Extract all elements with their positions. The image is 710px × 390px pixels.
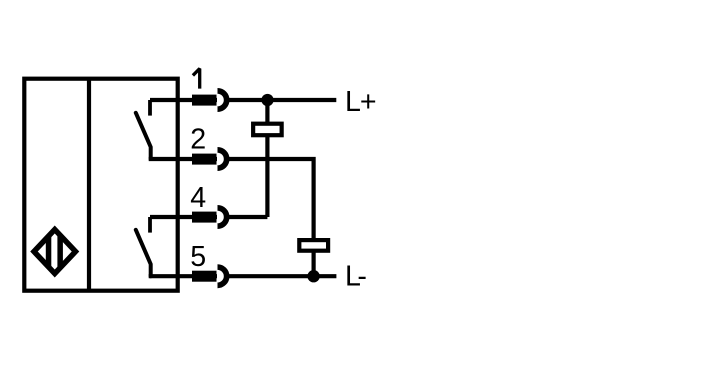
- wire pin1 to L+: [228, 98, 336, 102]
- sensor body outline: [24, 79, 177, 291]
- pin label 1: [193, 69, 200, 89]
- node junction at L-: [307, 270, 319, 282]
- inductive sensor symbol (diamond): [34, 227, 76, 277]
- wire pin4 (box to connector): [150, 215, 217, 219]
- svg-text:L+: L+: [345, 86, 377, 118]
- pin 1 contact: [192, 91, 227, 109]
- svg-text:L-: L-: [345, 261, 367, 293]
- wire pin2 right and down: [228, 159, 314, 240]
- wire pin5 (box to connector): [149, 274, 217, 278]
- wire pin4 right and up to R1: [228, 215, 267, 219]
- wire load R1 down to pin4 wire: [265, 136, 269, 217]
- switch S1 blade: [136, 113, 151, 159]
- node junction at L+: [261, 94, 273, 106]
- wire junction down to load R1: [265, 100, 269, 123]
- svg-text:5: 5: [190, 241, 206, 273]
- pin 5 contact: [192, 267, 227, 285]
- svg-text:2: 2: [190, 124, 206, 156]
- wire pin5 to L-: [228, 274, 336, 278]
- load R2: [299, 240, 328, 251]
- switch S1 fixed contact hook: [148, 100, 152, 116]
- svg-text:4: 4: [190, 182, 206, 214]
- wire load R2 down to L- node: [312, 251, 316, 276]
- sensor body divider: [87, 79, 91, 291]
- pin 2 contact: [192, 150, 227, 168]
- switch S2 blade: [136, 230, 151, 276]
- pin 4 contact: [192, 208, 227, 226]
- wire pin1 (box to connector): [150, 98, 217, 102]
- wire pin2 (box to connector): [149, 157, 217, 161]
- load R1: [253, 124, 282, 136]
- switch S2 fixed contact hook: [148, 217, 152, 233]
